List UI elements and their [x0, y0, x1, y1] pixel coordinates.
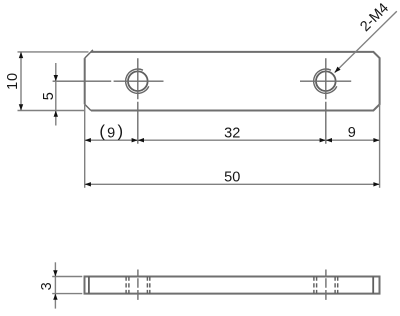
svg-text:9: 9 — [348, 125, 356, 141]
svg-text:32: 32 — [224, 125, 240, 141]
svg-text:10: 10 — [5, 72, 21, 90]
svg-text:50: 50 — [224, 170, 240, 186]
svg-text:2-M4: 2-M4 — [357, 0, 392, 35]
svg-text:5: 5 — [41, 92, 57, 100]
svg-text:3: 3 — [39, 282, 55, 290]
svg-text:(9): (9) — [99, 121, 123, 141]
